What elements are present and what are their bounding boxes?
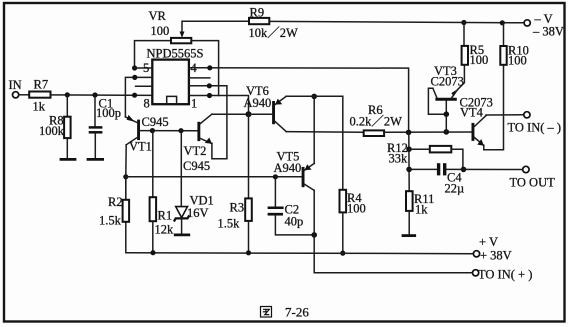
- resistor R10: [500, 46, 506, 65]
- node pin2: [207, 83, 212, 88]
- node R3 bus: [246, 250, 251, 255]
- svg-text:5: 5: [143, 61, 149, 75]
- wire VT2 collector to node: [212, 113, 249, 115]
- svg-text:VT1: VT1: [129, 140, 152, 154]
- svg-text:22µ: 22µ: [445, 182, 465, 196]
- svg-text:R3: R3: [230, 201, 245, 215]
- svg-text:R9: R9: [250, 6, 265, 20]
- svg-text:+ 38V: + 38V: [480, 249, 512, 263]
- svg-text:VR: VR: [149, 9, 167, 23]
- svg-text:R2: R2: [108, 195, 123, 209]
- resistor R3: [245, 198, 252, 221]
- svg-text:100: 100: [151, 24, 170, 38]
- wire VT6 collector to R6: [286, 131, 364, 134]
- node TO OUT: [406, 167, 412, 173]
- node R1 bus: [150, 250, 155, 255]
- node R6 column: [406, 130, 412, 136]
- node VT3 loop: [444, 111, 450, 117]
- wire pin 5 row: [135, 67, 153, 69]
- terminal TO IN(-): [524, 112, 530, 118]
- ground VD1: [174, 233, 190, 236]
- svg-text:100p: 100p: [96, 106, 121, 120]
- wire R8 bottom lead: [66, 138, 68, 158]
- wire R3 column: [248, 114, 250, 198]
- wire R12 left lead: [409, 148, 430, 150]
- svg-text:A940: A940: [244, 96, 272, 110]
- potentiometer VR: [171, 38, 191, 43]
- node C1 junction: [92, 92, 97, 97]
- node R1 top: [150, 128, 155, 133]
- capacitor C1: [89, 126, 103, 129]
- terminal -V: [524, 20, 530, 26]
- wire VR right to pin1: [191, 41, 218, 96]
- wire VT5 collector down to TO IN(+): [314, 190, 472, 272]
- wire R5 bottom to VT3: [457, 65, 464, 90]
- wire bias bus: [126, 176, 302, 178]
- wire C1 bottom lead: [94, 134, 96, 159]
- wire pin 7 stub: [136, 85, 153, 87]
- caption 图 7-26 glyph: [261, 307, 272, 318]
- node VD1 top: [178, 128, 183, 133]
- wire +V bus: [126, 200, 474, 254]
- node VT5 collector junction: [311, 232, 317, 238]
- resistor R9: [249, 18, 269, 24]
- ground C1: [87, 158, 104, 161]
- wire IN to R7: [19, 94, 29, 96]
- node R4 bus: [340, 251, 345, 256]
- node R8 junction: [65, 92, 70, 97]
- wire VT5 emitter up: [313, 96, 315, 163]
- wire R3 bottom: [248, 221, 250, 253]
- resistor R4: [340, 190, 347, 213]
- transistor VT1: [125, 115, 140, 145]
- node VT3 base: [444, 129, 450, 135]
- svg-text:1.5k: 1.5k: [218, 217, 241, 231]
- resistor R11: [406, 191, 413, 211]
- wire R4 bottom: [342, 212, 344, 253]
- transistor VT5: [302, 163, 315, 190]
- wire column to R12 and R11: [408, 132, 410, 191]
- resistor R7: [29, 92, 50, 98]
- node emitter rail: [311, 94, 317, 100]
- wire pin 1 row to VT2 collector node: [189, 96, 249, 115]
- ground R8: [60, 158, 77, 161]
- terminal IN: [13, 92, 19, 98]
- svg-text:1.5k: 1.5k: [99, 214, 122, 228]
- svg-text:16V: 16V: [187, 206, 209, 220]
- resistor R6: [364, 130, 384, 136]
- svg-text:+ V: + V: [479, 235, 498, 249]
- wire VR wiper arrow feed: [182, 21, 249, 32]
- node bus left: [123, 174, 128, 179]
- svg-text:R7: R7: [34, 78, 49, 92]
- terminal TO OUT: [523, 166, 529, 172]
- terminal +38V: [473, 251, 479, 257]
- node VT6 base junction: [246, 111, 252, 117]
- transistor VT2: [197, 114, 212, 143]
- wire C2 top lead: [274, 177, 276, 207]
- svg-text:TO IN( – ): TO IN( – ): [508, 121, 562, 135]
- terminal TO IN(+): [473, 270, 479, 276]
- node R10 top: [500, 20, 505, 25]
- node R5 top: [461, 20, 466, 25]
- wire R12 right to out line: [451, 149, 463, 169]
- svg-text:12k: 12k: [155, 223, 175, 237]
- wire VT4 collector to TO IN(-): [486, 114, 524, 116]
- svg-text:33k: 33k: [389, 152, 409, 166]
- svg-text:A940: A940: [274, 161, 302, 175]
- op-amp U1 NPD5565S body: [152, 60, 189, 105]
- node pin5 junction: [132, 65, 137, 70]
- svg-text:IN: IN: [9, 78, 22, 92]
- node pin6 junction: [132, 75, 137, 80]
- capacitor C2: [268, 206, 284, 209]
- svg-text:7-26: 7-26: [285, 305, 309, 320]
- wire pin 4 row to VT4 base column: [189, 68, 409, 133]
- wire VT1 emitter down to bus: [125, 145, 127, 200]
- wire R11 bottom: [408, 211, 410, 234]
- svg-text:TO OUT: TO OUT: [510, 176, 556, 190]
- resistor R5: [462, 46, 468, 65]
- svg-text:R1: R1: [158, 209, 173, 223]
- wire R9 to -V rail: [269, 21, 524, 22]
- wire VT1 base to VT2 base: [140, 130, 197, 132]
- svg-text:C945: C945: [183, 159, 210, 173]
- svg-text:VT4: VT4: [460, 106, 484, 120]
- wire emitter rail to R4: [286, 96, 343, 190]
- wire pin 2 row to VT2 emitter: [189, 86, 227, 159]
- wire C1 top lead: [94, 95, 96, 126]
- svg-text:TO IN( + ): TO IN( + ): [478, 268, 532, 282]
- svg-text:8: 8: [144, 97, 150, 111]
- resistor R8: [64, 117, 71, 138]
- wire out line to TO OUT: [447, 168, 523, 170]
- svg-text:1k: 1k: [415, 203, 428, 217]
- svg-text:VT2: VT2: [184, 144, 207, 158]
- wire R5 top lead: [463, 23, 465, 46]
- capacitor C4: [437, 163, 440, 175]
- ground R11: [402, 234, 417, 237]
- wire out line left of C4: [409, 168, 437, 170]
- wire R1 bottom: [152, 221, 154, 253]
- transistor VT6: [272, 96, 286, 131]
- wire R2 top lead: [125, 177, 127, 200]
- node C2 top: [273, 174, 278, 179]
- notch IC bottom: [167, 96, 177, 104]
- wire R10 bottom column: [484, 65, 504, 150]
- transistor VT3: [433, 88, 458, 132]
- wire pin 6 row: [125, 77, 152, 117]
- transistor VT4: [472, 116, 487, 150]
- wire VT3 collector loop: [428, 88, 443, 114]
- wire VD1 column: [180, 131, 182, 207]
- resistor R1: [150, 197, 157, 221]
- resistor R2: [123, 200, 130, 222]
- svg-text:100: 100: [470, 53, 489, 67]
- wire C2 bottom lead: [275, 216, 314, 235]
- svg-text:40p: 40p: [285, 215, 304, 229]
- svg-text:– 38V: – 38V: [532, 25, 564, 39]
- svg-text:10k／2W: 10k／2W: [249, 26, 299, 40]
- svg-text:C945: C945: [142, 115, 169, 129]
- wire R8 top lead: [66, 95, 68, 117]
- arrow VR wiper: [180, 32, 185, 38]
- svg-text:100k: 100k: [39, 124, 65, 138]
- wire pin 3 stub: [189, 77, 210, 79]
- node pin8 junction: [132, 93, 137, 98]
- wire R7 to IC pin 8: [51, 94, 153, 97]
- wire R10 top lead: [503, 23, 505, 46]
- svg-text:1: 1: [191, 97, 197, 111]
- svg-text:0.2k／2W: 0.2k／2W: [350, 115, 403, 129]
- node R12 left: [406, 146, 412, 152]
- wire R1 column: [152, 131, 154, 198]
- diode VD1 zener: [174, 207, 189, 222]
- svg-text:NPD5565S: NPD5565S: [147, 47, 204, 61]
- svg-text:4: 4: [191, 61, 198, 75]
- node pin1: [207, 93, 212, 98]
- svg-text:C2073: C2073: [431, 75, 464, 89]
- svg-text:1k: 1k: [33, 100, 46, 114]
- svg-text:100: 100: [347, 202, 366, 216]
- svg-text:100: 100: [508, 54, 527, 68]
- wire VR left to pin5: [135, 41, 172, 68]
- node R12 out junction: [461, 167, 467, 173]
- node pin4: [207, 65, 212, 70]
- wire R6 to VT4 base: [384, 131, 471, 133]
- resistor R12: [430, 146, 452, 153]
- wire VD1 bottom: [181, 218, 183, 233]
- wire VT6 base: [249, 113, 273, 115]
